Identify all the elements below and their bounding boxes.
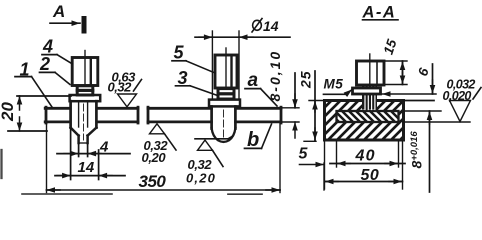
svg-text:0,20: 0,20 (142, 150, 167, 165)
svg-text:350: 350 (139, 172, 167, 191)
svg-text:M5: M5 (324, 77, 344, 92)
svg-text:8+0,016: 8+0,016 (409, 131, 425, 169)
svg-text:14: 14 (78, 159, 95, 176)
svg-text:5: 5 (174, 43, 185, 63)
svg-text:0,32: 0,32 (108, 80, 133, 95)
svg-text:14: 14 (263, 18, 279, 34)
svg-text:20: 20 (0, 102, 17, 122)
svg-text:4: 4 (99, 139, 109, 156)
svg-text:15: 15 (381, 37, 400, 56)
svg-text:0,20: 0,20 (186, 171, 216, 186)
svg-text:A: A (52, 2, 65, 21)
svg-text:6: 6 (415, 66, 432, 78)
svg-text:50: 50 (361, 167, 380, 184)
svg-text:40: 40 (355, 148, 376, 165)
svg-text:5: 5 (299, 146, 309, 163)
svg-text:8-0,10: 8-0,10 (267, 50, 283, 102)
svg-text:2: 2 (39, 54, 50, 74)
svg-text:A-A: A-A (362, 4, 397, 22)
svg-text:25: 25 (298, 70, 314, 89)
